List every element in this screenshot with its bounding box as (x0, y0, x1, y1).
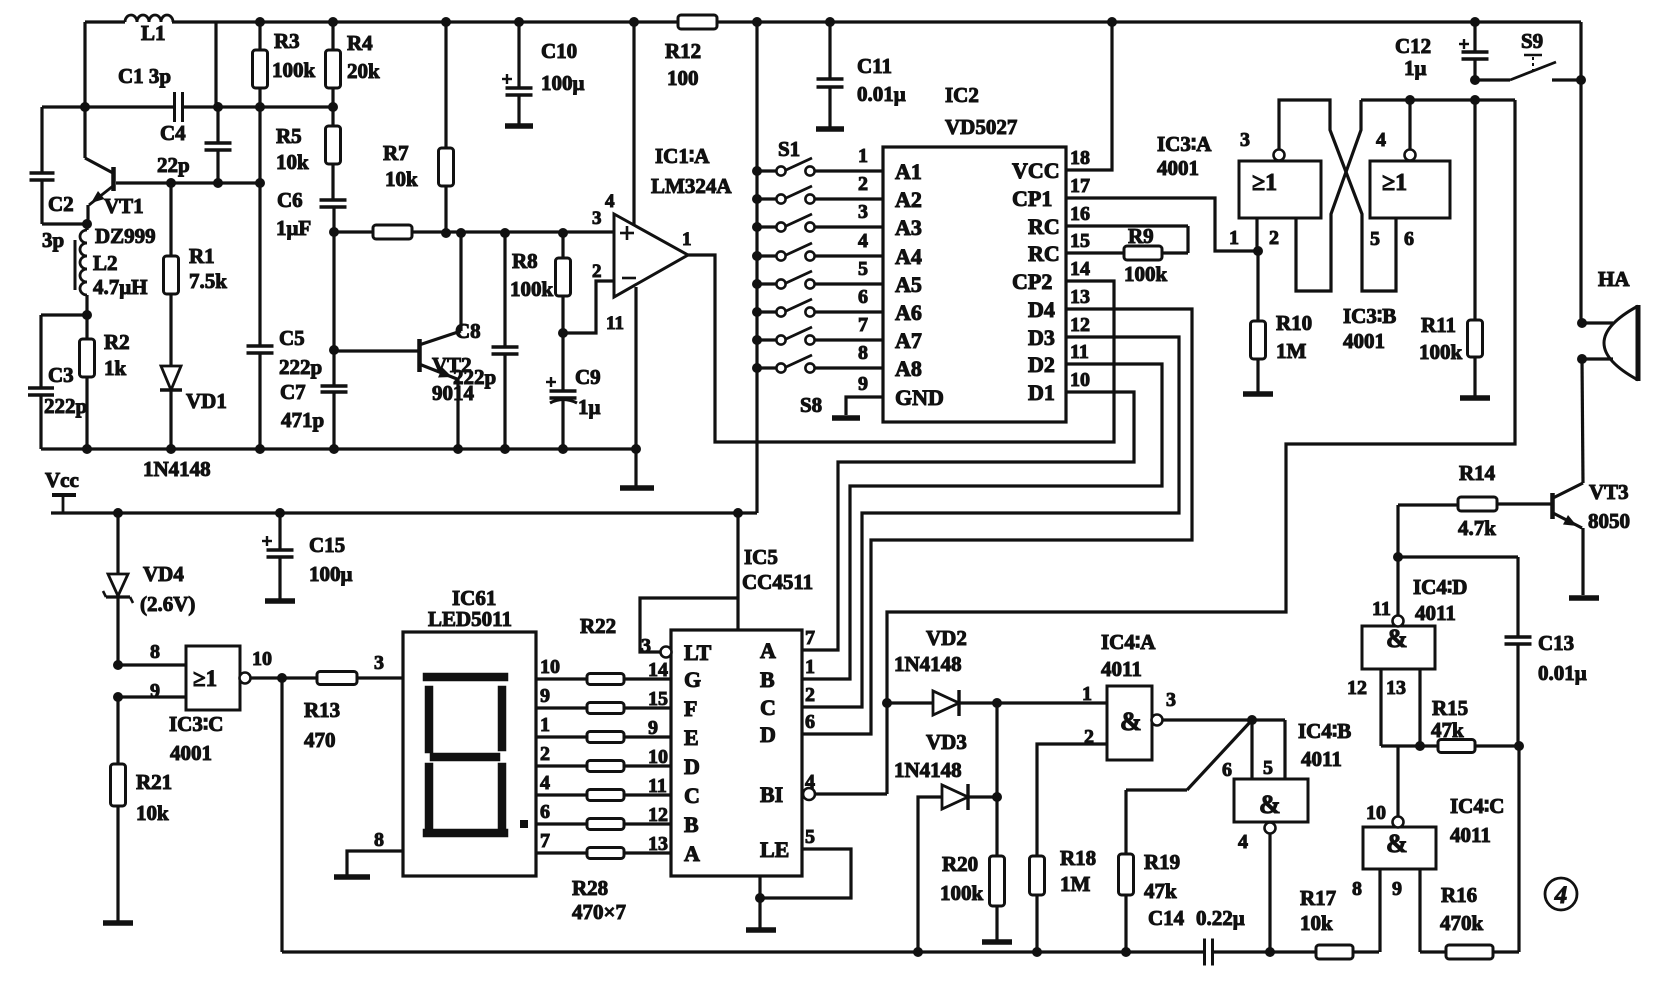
svg-text:22p: 22p (157, 153, 190, 177)
svg-text:L1: L1 (141, 21, 166, 45)
svg-text:5: 5 (858, 258, 868, 280)
wire IC4:A pin2 (1037, 744, 1107, 856)
svg-text:3: 3 (1240, 129, 1250, 151)
svg-text:C9: C9 (575, 365, 601, 389)
svg-text:9: 9 (858, 373, 868, 395)
svg-text:13: 13 (1386, 677, 1406, 699)
svg-text:1N4148: 1N4148 (143, 457, 211, 481)
svg-text:4001: 4001 (1343, 329, 1385, 353)
svg-text:11: 11 (1372, 598, 1391, 620)
svg-text:3: 3 (641, 635, 651, 657)
svg-text:47k: 47k (1144, 879, 1177, 903)
svg-text:R2: R2 (104, 330, 130, 354)
svg-text:5: 5 (805, 826, 815, 848)
capacitor C3 (41, 313, 87, 316)
svg-text:&: & (1120, 707, 1142, 736)
resistor R19 (1119, 854, 1134, 895)
ground R10 (1243, 391, 1273, 397)
capacitor C10 (517, 22, 520, 87)
svg-text:IC1∶A: IC1∶A (655, 144, 710, 168)
svg-text:7: 7 (805, 627, 815, 649)
svg-text:CP1: CP1 (1012, 186, 1052, 211)
svg-text:IC2: IC2 (945, 83, 979, 107)
transistor VT3 (1550, 493, 1555, 519)
capacitor C14 (1203, 939, 1206, 966)
IC U2 VD5027 (883, 147, 1066, 422)
svg-text:IC4∶D: IC4∶D (1413, 575, 1467, 599)
svg-text:VCC: VCC (1012, 158, 1060, 183)
svg-text:LT: LT (684, 640, 712, 665)
svg-text:6: 6 (540, 801, 550, 823)
capacitor C15 (278, 513, 281, 549)
capacitor C13 (1516, 557, 1519, 636)
wire IC5 BI (803, 788, 815, 800)
svg-text:10: 10 (1366, 802, 1386, 824)
svg-text:A2: A2 (895, 187, 922, 212)
svg-text:12: 12 (1347, 677, 1367, 699)
resistor R9 (1124, 246, 1162, 260)
svg-text:A4: A4 (895, 244, 922, 269)
svg-text:8: 8 (1352, 878, 1362, 900)
svg-text:7: 7 (540, 830, 550, 852)
wire IC4 feedback y746 (1379, 669, 1382, 746)
capacitor C7 (321, 384, 348, 387)
svg-text:4.7μH: 4.7μH (93, 275, 148, 299)
svg-text:C7: C7 (280, 380, 306, 404)
svg-text:R13: R13 (304, 698, 340, 722)
diode VD1 (161, 366, 181, 390)
display IC61 LED5011 (403, 632, 536, 876)
svg-text:4011: 4011 (1415, 601, 1456, 625)
transistor VT1 (111, 167, 116, 191)
svg-text:D4: D4 (1028, 297, 1055, 322)
svg-text:3: 3 (592, 208, 602, 229)
svg-text:6: 6 (1222, 759, 1232, 781)
svg-text:A: A (760, 638, 776, 663)
svg-text:8: 8 (374, 829, 384, 851)
svg-text:S9: S9 (1521, 29, 1543, 53)
svg-text:2: 2 (540, 743, 550, 765)
svg-text:R16: R16 (1441, 883, 1477, 907)
svg-text:1M: 1M (1060, 872, 1091, 896)
svg-text:4001: 4001 (1157, 156, 1199, 180)
svg-text:LM324A: LM324A (651, 174, 732, 198)
svg-text:A7: A7 (895, 328, 922, 353)
resistor R5 (328, 102, 338, 112)
svg-text:L2: L2 (93, 251, 118, 275)
wire op-amp pin2 (563, 281, 614, 333)
svg-text:A8: A8 (895, 356, 922, 381)
svg-text:1μ: 1μ (1404, 56, 1427, 80)
svg-text:1M: 1M (1276, 339, 1307, 363)
svg-text:IC3∶B: IC3∶B (1343, 304, 1396, 328)
svg-text:DZ999: DZ999 (95, 224, 156, 248)
svg-text:C10: C10 (541, 39, 577, 63)
svg-text:VD4: VD4 (143, 562, 184, 586)
wire VT1 base node y183 (116, 181, 260, 184)
wire IC61 pin8 gnd (347, 851, 403, 875)
resistor R20 (995, 703, 998, 856)
svg-text:IC4∶A: IC4∶A (1101, 630, 1156, 654)
svg-text:R3: R3 (274, 29, 300, 53)
svg-text:LE: LE (760, 837, 789, 862)
svg-text:A1: A1 (895, 159, 922, 184)
svg-text:R21: R21 (136, 770, 172, 794)
wire Vcc rail y513 (51, 511, 757, 514)
resistor R8 (561, 233, 564, 258)
diode VD2 (887, 701, 933, 704)
resistor R2 (85, 315, 88, 339)
svg-text:C12: C12 (1395, 34, 1431, 58)
svg-text:S8: S8 (800, 393, 822, 417)
svg-text:0.22μ: 0.22μ (1196, 906, 1245, 930)
svg-text:VD2: VD2 (926, 626, 967, 650)
svg-text:1: 1 (682, 229, 692, 250)
figure number 4 (1545, 878, 1577, 910)
wire IC4:D out node (1396, 505, 1399, 616)
svg-text:222p: 222p (453, 365, 496, 389)
svg-text:222p: 222p (279, 355, 322, 379)
svg-text:10: 10 (1070, 369, 1090, 391)
svg-text:10k: 10k (136, 801, 169, 825)
svg-text:4011: 4011 (1450, 823, 1491, 847)
svg-text:C5: C5 (279, 326, 305, 350)
svg-text:2: 2 (1269, 227, 1279, 249)
ground R20 (982, 939, 1012, 945)
wire op-amp + input y233 (334, 230, 373, 233)
resistor R6 (373, 225, 412, 239)
switch S9 (1470, 75, 1480, 85)
wire op-amp output to CP2 (688, 255, 1114, 442)
resistor R17 (1316, 945, 1353, 959)
svg-text:100k: 100k (272, 58, 316, 82)
speaker HA (1577, 318, 1587, 328)
svg-text:C: C (684, 783, 700, 808)
svg-text:C8: C8 (455, 319, 481, 343)
svg-text:1N4148: 1N4148 (894, 652, 962, 676)
wire ground line y449 (41, 447, 636, 450)
resistor R16 (1446, 945, 1493, 959)
svg-text:C6: C6 (277, 188, 303, 212)
svg-text:IC3∶C: IC3∶C (169, 712, 223, 736)
gate IC4:C (1363, 827, 1436, 869)
wire D3 to IC5 C (802, 337, 1179, 707)
svg-text:E: E (684, 725, 699, 750)
transistor VT2 (334, 349, 419, 352)
wire op-amp pin11 (634, 287, 637, 449)
svg-text:IC4∶B: IC4∶B (1298, 719, 1351, 743)
svg-text:4: 4 (858, 230, 868, 252)
resistor R7 (444, 22, 447, 148)
op-amp U1 IC1:A (614, 214, 688, 297)
svg-text:1: 1 (858, 145, 868, 167)
svg-text:VT1: VT1 (104, 194, 144, 218)
ground op-amp pin11 (634, 449, 637, 486)
svg-text:VD5027: VD5027 (945, 115, 1017, 139)
svg-text:D2: D2 (1028, 352, 1055, 377)
wire L1 loop left (83, 22, 86, 158)
svg-text:R20: R20 (942, 852, 978, 876)
svg-text:IC4∶C: IC4∶C (1450, 794, 1504, 818)
capacitor C8 (503, 233, 506, 346)
capacitor C5 (258, 183, 261, 345)
resistors R22-R28 ladder (536, 677, 587, 680)
svg-text:18: 18 (1070, 147, 1090, 169)
diode VD3 (918, 797, 942, 952)
svg-text:2: 2 (592, 261, 602, 282)
svg-text:100μ: 100μ (541, 71, 585, 95)
svg-text:C15: C15 (309, 533, 345, 557)
svg-text:100k: 100k (940, 881, 984, 905)
IC U5 CC4511 (671, 630, 802, 876)
svg-text:CC4511: CC4511 (742, 570, 813, 594)
svg-text:G: G (684, 667, 701, 692)
svg-text:≥1: ≥1 (1382, 170, 1407, 196)
wire top Vcc rail (216, 20, 1581, 23)
capacitor C11 (828, 22, 831, 78)
svg-text:≥1: ≥1 (193, 666, 217, 691)
wire IC2 pin18 VCC (1066, 22, 1112, 170)
ground IC5 (746, 927, 776, 933)
svg-text:100μ: 100μ (309, 562, 353, 586)
svg-text:10k: 10k (1300, 911, 1333, 935)
svg-text:R9: R9 (1128, 224, 1154, 248)
capacitor C9 (561, 333, 564, 390)
capacitor C12 (1470, 17, 1480, 27)
svg-text:3: 3 (1166, 689, 1176, 711)
svg-text:B: B (684, 812, 699, 837)
ground R11 (1460, 395, 1490, 401)
svg-text:6: 6 (805, 711, 815, 733)
resistor R15 (1438, 740, 1475, 753)
svg-text:R7: R7 (383, 141, 409, 165)
svg-text:7.5k: 7.5k (189, 269, 227, 293)
gate IC4:D (1362, 626, 1435, 669)
capacitor C2 (40, 107, 43, 172)
svg-text:1μF: 1μF (276, 216, 311, 240)
svg-text:&: & (1259, 790, 1281, 819)
svg-text:9: 9 (1392, 878, 1402, 900)
wire bottom rail (280, 678, 283, 952)
wire IC2 gnd pin9 (846, 397, 883, 415)
wire IC5 VDD (736, 513, 739, 630)
svg-text:3: 3 (374, 652, 384, 674)
svg-text:3: 3 (858, 201, 868, 223)
svg-text:2: 2 (858, 173, 868, 195)
svg-text:D: D (760, 722, 776, 747)
wire IC2 pin16 (1066, 224, 1188, 227)
svg-text:6: 6 (1404, 228, 1414, 250)
wire IC4:B output (1268, 834, 1271, 952)
svg-text:R22: R22 (580, 614, 616, 638)
svg-text:R14: R14 (1459, 461, 1496, 485)
svg-text:11: 11 (606, 313, 624, 334)
svg-text:4: 4 (1376, 129, 1386, 151)
svg-text:4.7k: 4.7k (1458, 516, 1496, 540)
svg-text:4011: 4011 (1101, 657, 1142, 681)
svg-text:R11: R11 (1421, 313, 1456, 337)
capacitor C1 (173, 92, 176, 122)
ground C15 (265, 598, 295, 604)
inductor L1 (125, 15, 137, 22)
svg-text:12: 12 (1070, 314, 1090, 336)
svg-text:F: F (684, 696, 697, 721)
svg-text:16: 16 (1070, 203, 1090, 225)
wire D1 to IC5 A (802, 392, 1134, 650)
svg-text:IC3∶A: IC3∶A (1157, 132, 1212, 156)
svg-text:1μ: 1μ (578, 395, 601, 419)
svg-text:D: D (684, 754, 700, 779)
svg-text:4001: 4001 (170, 741, 212, 765)
svg-text:470×7: 470×7 (572, 900, 626, 924)
gate IC3:B (1370, 161, 1450, 218)
svg-text:11: 11 (1070, 341, 1089, 363)
svg-text:C: C (760, 695, 776, 720)
inductor L2 (85, 224, 88, 230)
resistor R10 (1256, 251, 1259, 321)
wire IC5 LE gnd (760, 849, 851, 898)
svg-text:IC5: IC5 (744, 545, 778, 569)
wire L1 loop right (214, 22, 217, 107)
resistor R11 (1470, 95, 1480, 105)
svg-text:VD1: VD1 (186, 389, 227, 413)
gate IC4:B (1234, 779, 1308, 822)
svg-text:R4: R4 (347, 31, 373, 55)
resistor R13 (317, 672, 357, 685)
svg-text:R18: R18 (1060, 846, 1096, 870)
svg-text:3p: 3p (42, 228, 64, 252)
diode VD4 zener (116, 513, 119, 574)
wire latch out to VD2 (887, 100, 1515, 794)
wire IC2 pin15 (1066, 251, 1124, 254)
wire IC3:C output (250, 676, 317, 679)
resistor R18 (1030, 856, 1045, 895)
svg-text:C13: C13 (1538, 631, 1574, 655)
wire node line y107 (42, 105, 174, 108)
wire IC4:C inputs (1378, 869, 1381, 952)
svg-text:10: 10 (252, 648, 272, 670)
svg-text:4011: 4011 (1301, 747, 1342, 771)
svg-text:470k: 470k (1440, 911, 1484, 935)
capacitor C4 (216, 107, 219, 142)
gate IC4:A (1107, 686, 1152, 760)
svg-text:4: 4 (540, 772, 550, 794)
resistor R14 (1398, 503, 1458, 506)
svg-text:47k: 47k (1431, 718, 1464, 742)
svg-text:R8: R8 (512, 249, 538, 273)
svg-text:14: 14 (1070, 258, 1090, 280)
svg-text:471p: 471p (281, 408, 324, 432)
svg-text:D3: D3 (1028, 325, 1055, 350)
resistor R3 (258, 22, 261, 50)
svg-text:R5: R5 (276, 124, 302, 148)
svg-text:A: A (684, 841, 700, 866)
svg-text:8: 8 (858, 342, 868, 364)
ground VT3 emitter (1569, 595, 1599, 601)
svg-text:20k: 20k (347, 59, 380, 83)
gate IC3:A (1239, 161, 1321, 218)
resistor R12 (678, 15, 717, 29)
svg-text:6: 6 (858, 286, 868, 308)
svg-text:1k: 1k (104, 356, 127, 380)
svg-text:13: 13 (1070, 286, 1090, 308)
svg-text:C14: C14 (1148, 906, 1185, 930)
svg-text:4: 4 (1554, 882, 1568, 909)
wire D2 to IC5 B (802, 364, 1162, 679)
svg-text:R15: R15 (1432, 696, 1468, 720)
svg-text:R12: R12 (665, 39, 701, 63)
svg-text:GND: GND (895, 385, 944, 410)
svg-text:R19: R19 (1144, 850, 1180, 874)
svg-text:LED5011: LED5011 (428, 607, 512, 631)
svg-text:S1: S1 (778, 137, 800, 161)
svg-text:8050: 8050 (1588, 509, 1630, 533)
svg-text:RC: RC (1028, 241, 1060, 266)
svg-text:A5: A5 (895, 272, 922, 297)
wire speaker to VT3 (1582, 359, 1583, 483)
svg-text:1: 1 (805, 656, 815, 678)
svg-text:100k: 100k (1419, 340, 1463, 364)
svg-text:10k: 10k (276, 150, 309, 174)
svg-text:B: B (760, 667, 775, 692)
svg-text:C11: C11 (857, 54, 892, 78)
wire IC4:A out node (1162, 718, 1285, 721)
svg-text:(2.6V): (2.6V) (140, 592, 195, 616)
svg-text:Vcc: Vcc (45, 468, 79, 492)
wire op-amp pin4 (632, 22, 635, 226)
svg-text:100k: 100k (510, 277, 554, 301)
svg-text:&: & (1386, 624, 1408, 653)
capacitor C6 (320, 198, 347, 201)
wire bottom rail right (1420, 950, 1519, 953)
svg-text:A3: A3 (895, 215, 922, 240)
svg-text:VD3: VD3 (926, 730, 967, 754)
resistor R21 (116, 697, 119, 764)
svg-text:2: 2 (805, 684, 815, 706)
svg-text:8: 8 (150, 641, 160, 663)
svg-text:4: 4 (1238, 831, 1248, 853)
svg-text:HA: HA (1598, 267, 1630, 291)
svg-text:VT3: VT3 (1589, 480, 1629, 504)
svg-text:1N4148: 1N4148 (894, 758, 962, 782)
svg-text:100: 100 (667, 66, 699, 90)
svg-text:BI: BI (760, 782, 783, 807)
wire HA feed (1579, 22, 1582, 323)
svg-text:470: 470 (304, 728, 336, 752)
svg-text:A6: A6 (895, 300, 922, 325)
svg-text:0.01μ: 0.01μ (1538, 661, 1587, 685)
svg-text:D1: D1 (1028, 380, 1055, 405)
svg-text:9: 9 (150, 680, 160, 702)
wire IC3:B out cross to A pin2 (1408, 100, 1411, 150)
svg-text:C1 3p: C1 3p (118, 64, 171, 88)
svg-text:R1: R1 (189, 244, 215, 268)
wire switch bus Vcc (755, 22, 758, 513)
switch block S1-S8 (752, 166, 762, 176)
svg-text:1: 1 (1082, 683, 1092, 705)
resistor R4 (331, 22, 334, 50)
wire IC3:A pin1 (1255, 218, 1258, 251)
svg-text:C3: C3 (48, 363, 74, 387)
svg-text:222p: 222p (44, 394, 87, 418)
svg-text:10k: 10k (385, 167, 418, 191)
svg-text:100k: 100k (1124, 262, 1168, 286)
svg-text:CP2: CP2 (1012, 269, 1052, 294)
wire IC2 pin17 CP1 (1066, 198, 1258, 251)
wire D4 to IC5 D (802, 309, 1192, 734)
svg-text:17: 17 (1070, 175, 1090, 197)
svg-text:C2: C2 (48, 192, 74, 216)
